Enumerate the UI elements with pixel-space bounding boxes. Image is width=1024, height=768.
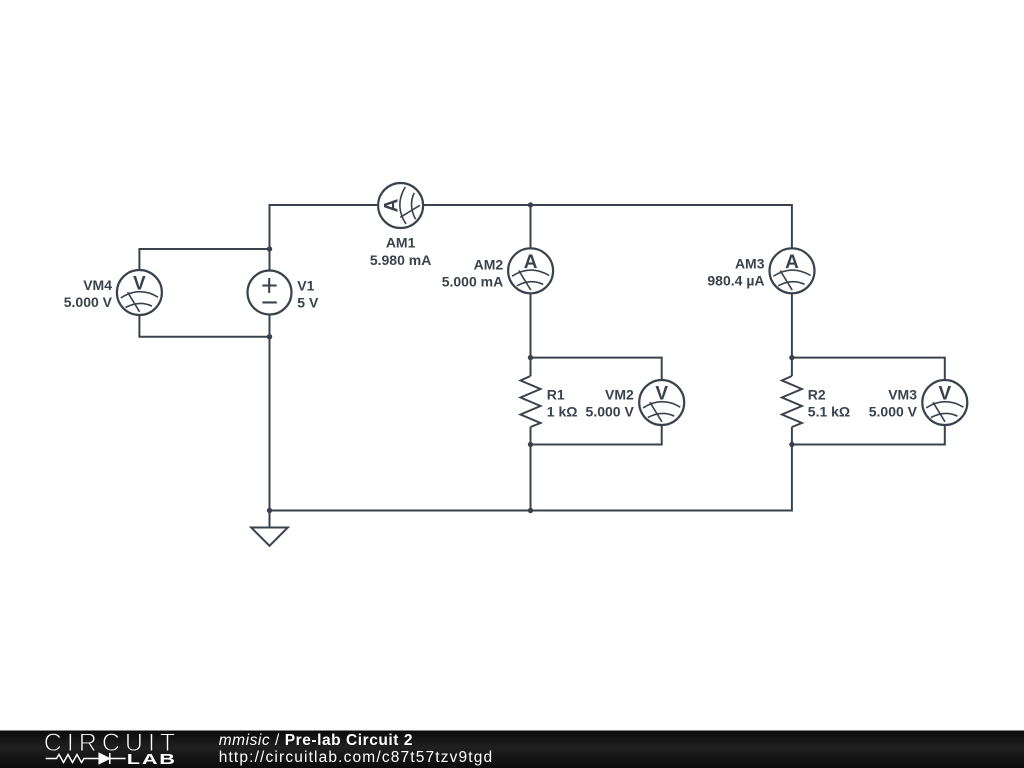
- label VM2: [586, 387, 635, 420]
- wire AM2 top drop: [530, 205, 532, 248]
- svg-text:http://circuitlab.com/c87t57tz: http://circuitlab.com/c87t57tzv9tgd: [219, 749, 494, 766]
- label VM4: [64, 277, 113, 310]
- junction AM3 / R2 / VM3 top: [789, 355, 794, 360]
- label AM1: [370, 234, 431, 268]
- svg-text:V: V: [938, 384, 951, 405]
- label AM3: [707, 256, 764, 289]
- voltmeter VM4: [117, 270, 162, 315]
- junction V1 bottom / VM4 branch: [267, 334, 272, 339]
- junction AM2 / R1 / VM2 top: [528, 355, 533, 360]
- svg-text:5.000 V: 5.000 V: [64, 294, 113, 310]
- svg-text:V: V: [133, 274, 146, 295]
- wire VM3 top branch: [792, 358, 945, 380]
- footer bar: [0, 731, 1024, 768]
- svg-text:VM3: VM3: [888, 387, 917, 403]
- wire AM3 to R2: [791, 293, 793, 376]
- junction bottom bus / R1 branch: [528, 508, 533, 513]
- svg-text:LAB: LAB: [127, 750, 177, 767]
- svg-text:AM3: AM3: [735, 256, 765, 272]
- junction ground node: [267, 508, 272, 513]
- wire bottom bus: [270, 445, 792, 511]
- ammeter AM1: [378, 183, 423, 228]
- label VM3: [869, 387, 918, 420]
- label R2: [808, 387, 850, 420]
- wire R1 bottom to bus: [530, 427, 532, 511]
- wire VM4 top branch: [139, 249, 269, 270]
- resistor R2: [782, 376, 802, 427]
- wire R2 bottom segment: [791, 427, 793, 445]
- CircuitLab logo CIRCUIT: [44, 729, 180, 757]
- label AM2: [442, 256, 504, 289]
- svg-text:mmisic / Pre-lab Circuit 2: mmisic / Pre-lab Circuit 2: [219, 732, 413, 749]
- wire V1 bottom stem: [269, 315, 271, 511]
- svg-text:5.000 V: 5.000 V: [586, 404, 635, 420]
- CircuitLab logo resistor-diode glyph: [46, 753, 126, 764]
- CircuitLab logo LAB: [127, 750, 177, 767]
- svg-text:V: V: [655, 384, 668, 405]
- svg-text:AM1: AM1: [386, 234, 416, 250]
- wire ground stem: [269, 511, 271, 528]
- wire VM3 bottom branch: [792, 425, 945, 445]
- voltmeter VM2: [639, 380, 684, 425]
- svg-text:5.000 mA: 5.000 mA: [442, 274, 503, 290]
- ammeter AM3: [770, 248, 815, 293]
- svg-text:5.1 kΩ: 5.1 kΩ: [808, 404, 850, 420]
- footer title text: [219, 732, 494, 766]
- wire V1 top stem: [269, 204, 271, 271]
- wire VM4 bottom branch: [139, 315, 269, 337]
- junction V1 top / VM4 branch: [267, 246, 272, 251]
- wire top bus left segment: [270, 204, 379, 206]
- svg-text:A: A: [785, 252, 799, 273]
- svg-text:VM2: VM2: [605, 387, 634, 403]
- wire AM2 to R1: [530, 293, 532, 376]
- ground: [251, 528, 288, 546]
- svg-text:5.000 V: 5.000 V: [869, 404, 918, 420]
- junction top bus / AM2 branch: [528, 202, 533, 207]
- svg-text:980.4 µA: 980.4 µA: [707, 273, 764, 289]
- svg-text:A: A: [524, 252, 538, 273]
- voltage source V1: [248, 271, 292, 315]
- resistor R1: [521, 376, 541, 427]
- voltmeter VM3: [922, 380, 967, 425]
- svg-text:AM2: AM2: [474, 256, 504, 272]
- svg-text:A: A: [382, 198, 403, 212]
- ammeter AM2: [508, 248, 553, 293]
- svg-text:V1: V1: [297, 278, 314, 294]
- wire VM2 top branch: [531, 358, 662, 380]
- junction R2 bottom / VM3 bottom: [789, 442, 794, 447]
- junction R1 bottom / VM2 bottom: [528, 442, 533, 447]
- label V1: [297, 278, 319, 311]
- wire VM2 bottom branch: [531, 425, 662, 445]
- svg-text:R2: R2: [808, 387, 826, 403]
- svg-text:1 kΩ: 1 kΩ: [547, 404, 578, 420]
- wire top bus right segment: [423, 204, 792, 206]
- svg-text:5.980 mA: 5.980 mA: [370, 252, 431, 268]
- label R1: [547, 387, 578, 420]
- svg-text:R1: R1: [547, 387, 565, 403]
- svg-text:VM4: VM4: [83, 277, 112, 293]
- svg-text:5 V: 5 V: [297, 295, 319, 311]
- wire AM3 top drop: [791, 204, 793, 248]
